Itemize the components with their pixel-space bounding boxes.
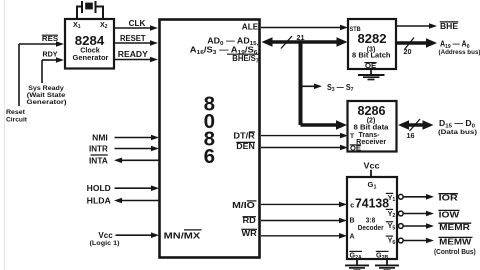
svg-text:(Wait State: (Wait State xyxy=(27,92,66,99)
bus A19-A0 thick arrow xyxy=(396,38,437,48)
wire RD to B xyxy=(261,218,347,224)
svg-text:8 Bit Latch: 8 Bit Latch xyxy=(352,53,391,60)
wire sys-ready vertical xyxy=(41,60,43,83)
wire Vcc stub xyxy=(370,170,372,177)
wire CLK xyxy=(114,25,158,31)
svg-text:(Control Bus): (Control Bus) xyxy=(434,249,476,256)
svg-text:16: 16 xyxy=(407,131,415,140)
svg-text:IOR: IOR xyxy=(439,194,458,203)
wire RES into 8284 xyxy=(19,41,64,47)
svg-text:Generator): Generator) xyxy=(27,99,67,106)
ground under G2B xyxy=(375,259,399,270)
bus arrow into 8286 xyxy=(301,120,348,130)
svg-text:HLDA: HLDA xyxy=(87,196,112,205)
output bubble Y6 xyxy=(398,238,403,243)
svg-text:BHE: BHE xyxy=(440,22,459,31)
svg-text:IOW: IOW xyxy=(439,210,460,219)
label Sys Ready (Wait State Generator) xyxy=(27,85,67,106)
wire M/IO to C xyxy=(261,202,347,208)
svg-text:RD: RD xyxy=(243,216,257,225)
svg-text:(2): (2) xyxy=(367,118,376,125)
left border line xyxy=(4,0,6,270)
crystal X1 xyxy=(76,1,104,19)
wire HLDA out xyxy=(114,198,159,204)
wire NMI xyxy=(115,135,160,141)
bus vertical trunk xyxy=(299,40,303,125)
svg-text:8284: 8284 xyxy=(75,34,105,48)
svg-text:8286: 8286 xyxy=(358,104,386,118)
svg-text:6: 6 xyxy=(204,145,215,168)
bus AD0-AD15 thick double arrow xyxy=(262,37,348,47)
wire RDY into 8284 xyxy=(42,57,64,63)
label Reset Circuit xyxy=(6,109,28,124)
wire INTA out xyxy=(114,158,159,164)
svg-text:T: T xyxy=(350,133,354,140)
svg-text:WR: WR xyxy=(242,229,258,238)
svg-text:BHE/S7: BHE/S7 xyxy=(232,54,259,64)
svg-text:MEMW: MEMW xyxy=(439,237,472,246)
wire DEN to OE xyxy=(261,145,348,151)
wire ALE to STB xyxy=(261,25,348,31)
svg-text:(Logic 1): (Logic 1) xyxy=(90,240,120,247)
svg-text:Decoder: Decoder xyxy=(358,225,384,232)
svg-text:20: 20 xyxy=(404,47,412,56)
svg-text:CLK: CLK xyxy=(129,19,146,28)
svg-text:MN/MX: MN/MX xyxy=(164,230,201,240)
wire INTR xyxy=(115,146,160,152)
wire IOR xyxy=(404,194,435,200)
svg-text:Trans-: Trans- xyxy=(359,132,381,139)
svg-text:(Data bus): (Data bus) xyxy=(438,129,477,136)
output bubble Y2 xyxy=(398,211,403,216)
svg-text:3:8: 3:8 xyxy=(366,218,375,225)
svg-text:c: c xyxy=(350,202,354,209)
svg-text:8 Bit data: 8 Bit data xyxy=(354,125,389,132)
svg-text:RESET: RESET xyxy=(120,34,146,43)
svg-text:DEN: DEN xyxy=(236,142,255,151)
wire reset vertical xyxy=(18,44,20,106)
wire RESET xyxy=(114,40,158,46)
svg-text:(Address bus): (Address bus) xyxy=(439,49,480,56)
wire S3-S7 branch xyxy=(302,84,322,90)
svg-text:Clock: Clock xyxy=(80,48,100,55)
svg-text:8282: 8282 xyxy=(358,32,387,46)
wire HOLD xyxy=(115,185,160,191)
output bubble Y5 xyxy=(398,224,403,229)
svg-text:S3 — S7: S3 — S7 xyxy=(327,83,354,93)
svg-text:Vcc: Vcc xyxy=(364,162,381,171)
svg-text:Sys Ready: Sys Ready xyxy=(28,85,64,92)
wire DT/R to T xyxy=(261,133,348,139)
wire MEMR xyxy=(404,223,435,229)
svg-text:B: B xyxy=(350,218,355,225)
latch U3 8282 xyxy=(348,19,396,70)
wire WR to A xyxy=(261,233,347,239)
svg-text:Reset: Reset xyxy=(6,109,26,116)
transceiver U4 8286 xyxy=(348,101,397,153)
svg-text:NMI: NMI xyxy=(92,133,108,142)
bus D15-D0 double arrow xyxy=(398,120,434,130)
wire Vcc to MN/MX xyxy=(116,232,160,238)
svg-text:Vcc: Vcc xyxy=(98,231,113,240)
svg-text:RDY: RDY xyxy=(43,50,58,59)
svg-text:DT/R: DT/R xyxy=(233,131,255,140)
slash 16 xyxy=(410,119,421,131)
svg-text:INTA: INTA xyxy=(89,157,108,166)
svg-text:74138: 74138 xyxy=(355,197,389,211)
svg-text:INTR: INTR xyxy=(89,144,108,153)
svg-text:Generator: Generator xyxy=(73,55,109,62)
svg-text:HOLD: HOLD xyxy=(87,184,111,193)
wire READY xyxy=(114,57,158,63)
wire MEMW xyxy=(404,238,435,244)
svg-text:ALE: ALE xyxy=(242,23,259,32)
output bubble Y1 xyxy=(398,194,403,199)
svg-text:READY: READY xyxy=(118,50,149,59)
svg-text:A: A xyxy=(350,233,355,240)
ground under 8282 xyxy=(358,69,385,80)
clock generator U1 8284 xyxy=(65,19,114,69)
slash 20 xyxy=(405,38,415,50)
slash 21 xyxy=(281,36,292,49)
wire BHE out xyxy=(396,23,437,29)
decoder U5 74138 xyxy=(347,177,397,261)
CPU U2 8086 xyxy=(160,20,260,258)
ground under G2A xyxy=(345,259,369,270)
svg-text:MEMR: MEMR xyxy=(439,223,470,232)
svg-text:M/IO: M/IO xyxy=(232,201,255,210)
svg-text:Circuit: Circuit xyxy=(6,117,28,124)
wire IOW xyxy=(404,211,435,217)
